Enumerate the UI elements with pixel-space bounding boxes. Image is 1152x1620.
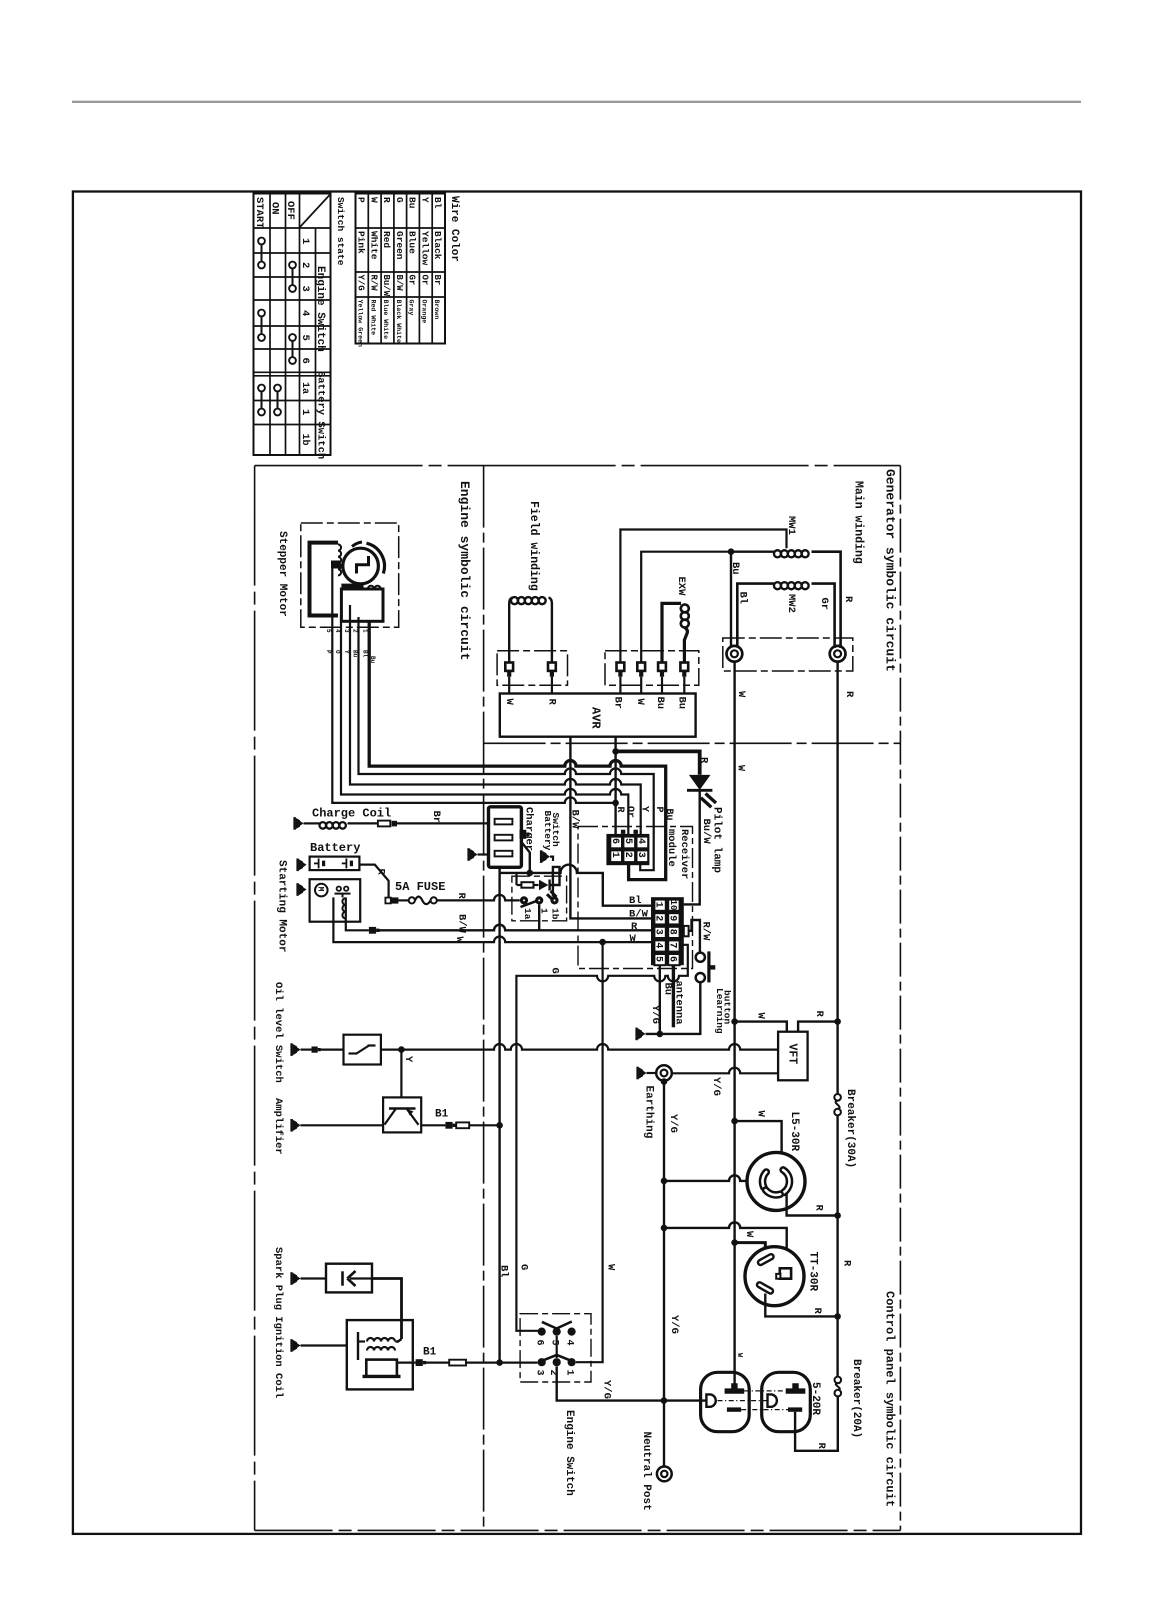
wire color row P <box>356 197 367 347</box>
svg-text:Red: Red <box>381 231 392 248</box>
svg-text:B/W: B/W <box>456 914 468 934</box>
label Learning button <box>714 988 733 1034</box>
AVR connector pins <box>617 663 689 677</box>
oil switch pin <box>312 1047 321 1053</box>
wire B/W from starting motor coil to 10-pin pin3 <box>346 922 369 931</box>
wire battery to fuse (R diagonal) <box>359 865 388 898</box>
label W (bus) <box>734 765 745 771</box>
ground (starting motor) <box>296 883 306 896</box>
svg-text:P: P <box>653 807 664 813</box>
label TT-30R <box>807 1252 819 1292</box>
svg-text:button: button <box>722 990 733 1025</box>
svg-text:Main winding: Main winding <box>852 481 865 564</box>
svg-text:Y/G: Y/G <box>649 1005 661 1024</box>
svg-text:Battery: Battery <box>310 841 360 855</box>
label Main winding <box>852 481 865 564</box>
starting motor bracket and coil <box>335 894 351 922</box>
contacts ON 1a-1 <box>274 385 281 416</box>
stepper stator coil bumps <box>338 544 341 575</box>
svg-text:VFT: VFT <box>786 1044 799 1065</box>
label Bl (MW2 lead) <box>737 592 749 605</box>
label R (TT) <box>811 1308 823 1315</box>
svg-text:Y: Y <box>419 197 430 203</box>
svg-text:Bu: Bu <box>676 697 688 710</box>
label B/W (AVR wire) <box>568 810 580 830</box>
pin number 6 (engine switch col) <box>299 358 311 364</box>
svg-text:Switch state: Switch state <box>335 197 346 266</box>
svg-text:Bu: Bu <box>407 197 418 209</box>
svg-text:Green: Green <box>394 231 405 260</box>
charger slots <box>495 819 513 857</box>
svg-text:Or: Or <box>624 806 635 818</box>
divider engine/generator (dash-dot) <box>483 466 485 1531</box>
wire stepper 2 (Or) to 6-pin cell 5 <box>341 616 628 835</box>
svg-text:9: 9 <box>667 915 678 921</box>
spark plug box <box>326 1264 372 1293</box>
region boundary bottom (dash-dot) <box>255 1529 901 1531</box>
svg-text:Yellow Green: Yellow Green <box>357 300 364 348</box>
battery switch blade 1a-1 <box>521 901 538 907</box>
pilot lamp LED <box>687 775 716 807</box>
svg-text:5: 5 <box>549 1340 560 1346</box>
wire spark plug to ignition coil <box>372 1279 402 1340</box>
pin numbers 10-pin <box>653 900 678 962</box>
svg-text:M: M <box>316 887 325 892</box>
stepper junction blob <box>331 561 341 569</box>
junction dot Y/G ground <box>657 1031 664 1038</box>
wire color row Bl <box>432 197 443 319</box>
label B/W (motor wire) <box>456 914 468 934</box>
wire Y/G to L5-30R <box>664 1175 763 1181</box>
svg-text:Bl: Bl <box>362 650 369 658</box>
ignition coil secondary block <box>363 1360 401 1377</box>
label MW2 <box>785 594 797 613</box>
switch state table grid <box>254 194 331 456</box>
battery switch dash box <box>512 876 567 921</box>
ground (earthing) <box>636 1067 646 1080</box>
label 5-20R <box>809 1382 821 1415</box>
junction dot Y/G bottom <box>661 1397 668 1404</box>
wire Y/G bus to neutral post <box>663 1401 665 1467</box>
label Neutral Post <box>640 1432 652 1511</box>
svg-text:G: G <box>549 968 561 974</box>
wire W bus to engine switch contact 1 <box>576 942 603 1362</box>
wire stepper 1 (R) joins AVR R wire <box>332 568 615 803</box>
MW1 coil <box>774 550 809 557</box>
MW2 coil <box>774 582 809 589</box>
label R (pin3) <box>631 921 638 933</box>
label OFF <box>284 201 296 220</box>
wire ground to ignition coil box <box>301 1344 347 1346</box>
svg-text:B/W: B/W <box>394 275 404 292</box>
junction dot amplifier-Bl bus <box>496 1122 503 1129</box>
label Earthing <box>643 1086 655 1139</box>
svg-text:1: 1 <box>564 1370 575 1376</box>
label L5-30R <box>788 1112 800 1152</box>
label Amplifier <box>272 1098 284 1155</box>
svg-text:Battery Switch: Battery Switch <box>315 371 327 459</box>
battery switch contacts 1a 1 1b <box>520 896 559 904</box>
svg-text:4: 4 <box>635 838 646 844</box>
svg-text:Y/G: Y/G <box>667 1114 679 1133</box>
svg-text:R: R <box>631 921 638 933</box>
label W (TT) <box>743 1231 755 1238</box>
charger right tab <box>520 830 530 839</box>
ground (battery switch) <box>540 850 550 863</box>
receptacle 5-20R right dome <box>762 1372 811 1431</box>
label Generator symbolic circuit <box>883 469 898 672</box>
svg-text:R: R <box>841 1260 853 1267</box>
wire AVR Br to MW1 top <box>620 530 786 662</box>
wire charger bottom stub <box>498 867 500 873</box>
wire R/W from pin8 to learning button <box>689 920 700 952</box>
svg-text:5: 5 <box>299 335 311 341</box>
label Breaker(20A) <box>850 1359 862 1438</box>
svg-text:Switch: Switch <box>550 813 561 848</box>
label Charge Coil <box>312 807 391 821</box>
switch table diagonal cell <box>300 194 331 228</box>
wire ignition coil output B1 <box>397 1361 416 1363</box>
contacts OFF 5-6 <box>289 334 296 364</box>
transistor symbol <box>385 1109 419 1125</box>
svg-text:L5-30R: L5-30R <box>788 1112 800 1152</box>
labels 1a 1 1b <box>522 908 561 920</box>
VFT box <box>778 1032 808 1081</box>
EXW coil and wires <box>662 603 689 661</box>
wire field winding left (W) <box>508 604 510 662</box>
svg-text:Or: Or <box>419 275 429 286</box>
svg-text:R: R <box>842 596 854 603</box>
region boundary top (dash-dot) <box>255 465 901 467</box>
wire color row Bu <box>407 197 418 315</box>
svg-text:Y/G: Y/G <box>601 1380 613 1399</box>
svg-text:White: White <box>368 231 379 260</box>
svg-text:G: G <box>518 1264 530 1270</box>
label Engine symbolic circuit <box>457 481 472 660</box>
learning button <box>696 951 716 982</box>
junction dot R-L5 <box>834 1212 841 1219</box>
wire Y/G to TT-30R <box>664 1222 787 1269</box>
svg-text:B1: B1 <box>423 1347 437 1359</box>
svg-text:Bu: Bu <box>663 809 674 821</box>
stepper pin number labels <box>325 629 369 633</box>
label R (6-pin wire) <box>614 807 625 813</box>
label Charger <box>523 807 535 851</box>
wire color row R <box>381 197 392 339</box>
stepper lower block <box>341 589 383 621</box>
charge coil <box>304 822 378 829</box>
svg-text:W: W <box>754 1111 766 1118</box>
svg-text:OFF: OFF <box>284 201 296 220</box>
junction dot L5 Y/G <box>661 1178 668 1185</box>
wire AVR W to node Bu <box>641 552 731 662</box>
wire MW2 right lead (Gr) <box>812 584 835 648</box>
svg-text:Bl: Bl <box>498 1265 510 1278</box>
label W (starting motor wire) <box>453 937 465 944</box>
wire charger ground <box>478 853 489 855</box>
label EXW <box>675 577 687 597</box>
label Control panel symbolic circuit <box>883 1291 897 1507</box>
svg-text:1a: 1a <box>299 382 310 394</box>
junction dot W-L5 <box>731 1118 738 1125</box>
junction dot R-TT <box>834 1313 841 1320</box>
svg-text:5: 5 <box>325 629 332 633</box>
svg-text:3: 3 <box>635 852 646 858</box>
svg-text:7: 7 <box>667 942 678 948</box>
stepper lower block connect bar <box>341 584 363 589</box>
svg-text:R: R <box>381 197 392 203</box>
svg-text:Breaker(30A): Breaker(30A) <box>844 1089 856 1168</box>
wire Y/G from pin5 down <box>659 965 661 1034</box>
ring terminal right <box>830 646 846 662</box>
label B1 (ignition) <box>423 1347 437 1359</box>
svg-text:3: 3 <box>299 286 311 292</box>
wire charger tab diagonal <box>521 842 529 873</box>
label Oil level Switch <box>272 982 284 1083</box>
junction dot W-TT <box>731 1239 738 1246</box>
svg-text:4: 4 <box>564 1340 575 1346</box>
wire Br to charger <box>397 822 489 824</box>
wire ground to amplifier box <box>301 1124 384 1126</box>
svg-text:1b: 1b <box>550 908 561 920</box>
connector pair (charge coil) <box>378 821 397 827</box>
svg-text:Charge Coil: Charge Coil <box>312 807 391 821</box>
svg-text:Field winding: Field winding <box>527 501 540 591</box>
starting motor M circle <box>315 884 328 897</box>
wire battery switch contact 1 down to pin3 wire <box>538 905 540 931</box>
svg-text:R: R <box>375 869 387 876</box>
label Stepper Motor <box>276 531 288 617</box>
svg-text:6: 6 <box>667 956 678 962</box>
wire stepper 3 (Y) to 6-pin cell 4 <box>350 605 641 835</box>
svg-text:10: 10 <box>668 900 678 911</box>
wire Y/G bus down <box>663 1081 665 1401</box>
wires AVR pins to AVR box <box>509 677 684 694</box>
label R (VFT) <box>813 1011 825 1018</box>
svg-text:Black: Black <box>432 231 443 260</box>
stepper rotation arc <box>367 543 385 573</box>
wire MW2 left lead (Bl) to ring terminal <box>737 584 774 648</box>
svg-text:5: 5 <box>653 956 664 962</box>
label Y/G (engine switch) <box>601 1380 613 1399</box>
wire stepper 5 (Bu, thick) to 6-pin cell 2 <box>369 621 666 879</box>
wire Bl from charger to 10-pin pin1 <box>500 865 651 906</box>
label START <box>253 197 265 229</box>
spark gap symbol <box>343 1271 373 1286</box>
stepper motor dash box <box>301 523 399 627</box>
svg-text:B/W: B/W <box>629 909 649 921</box>
contacts START 1-2 <box>258 238 265 269</box>
wire ground to oil switch box <box>301 1048 344 1050</box>
svg-text:3: 3 <box>534 1370 545 1376</box>
svg-text:Stepper Motor: Stepper Motor <box>276 531 288 617</box>
svg-text:Pink: Pink <box>356 231 367 254</box>
wire stepper 4 (P) to 6-pin cell 3 <box>359 617 654 870</box>
ring terminal neutral post <box>657 1467 672 1482</box>
oil switch symbol <box>349 1046 376 1054</box>
svg-text:W: W <box>754 1013 766 1020</box>
svg-text:Engine symbolic circuit: Engine symbolic circuit <box>457 481 472 660</box>
svg-text:Gray: Gray <box>408 300 415 316</box>
label R (5-20R) <box>815 1443 827 1450</box>
svg-text:Earthing: Earthing <box>643 1086 655 1139</box>
ground (amplifier) <box>290 1119 300 1132</box>
label Receiver module <box>665 829 690 879</box>
svg-text:W: W <box>453 937 465 944</box>
svg-text:Y/G: Y/G <box>710 1077 722 1096</box>
label Bu/W <box>700 819 712 845</box>
amplifier box <box>383 1097 421 1132</box>
pin number 1 (engine switch col) <box>299 238 311 244</box>
ground (battery) <box>296 859 306 872</box>
svg-text:Black White: Black White <box>395 300 402 344</box>
svg-text:R/W: R/W <box>699 922 711 942</box>
svg-text:P: P <box>356 197 367 203</box>
svg-text:Blue White: Blue White <box>382 300 389 340</box>
svg-text:B1: B1 <box>435 1109 449 1121</box>
label Y/G (pin5) <box>649 1005 661 1024</box>
svg-text:ON: ON <box>269 202 281 215</box>
svg-text:Bl: Bl <box>629 895 642 907</box>
wire W from starting motor to 10-pin pin4 <box>333 897 651 942</box>
label Br <box>430 811 442 824</box>
label B1 (amplifier) <box>435 1109 449 1121</box>
wire MW1 right lead (R) <box>812 552 841 648</box>
svg-text:5A FUSE: 5A FUSE <box>395 880 445 894</box>
wire learning button to ground <box>646 982 701 1034</box>
label Or (6-pin wire) <box>624 806 635 818</box>
label R (battery) <box>375 869 387 876</box>
svg-text:1b: 1b <box>299 434 311 446</box>
svg-text:EXW: EXW <box>675 577 687 597</box>
label Engine Switch (group) <box>314 266 326 352</box>
svg-text:1: 1 <box>653 902 664 908</box>
svg-text:TT-30R: TT-30R <box>807 1252 819 1292</box>
svg-text:Red White: Red White <box>369 300 376 336</box>
junction dot below ring <box>661 1078 668 1085</box>
svg-text:AVR: AVR <box>589 707 603 729</box>
region boundary left (dash-dot) <box>254 466 256 1531</box>
label VFT <box>786 1044 799 1065</box>
ground (spark plug) <box>290 1272 300 1285</box>
label Y/G (bus upper) <box>667 1114 679 1133</box>
svg-text:4: 4 <box>299 310 311 316</box>
label Bu (node) <box>729 562 741 575</box>
LED indicator <box>539 880 557 901</box>
wire color row Y <box>419 197 430 323</box>
svg-text:2: 2 <box>653 915 664 921</box>
ground (charge coil) <box>293 817 303 830</box>
svg-text:4: 4 <box>653 942 664 948</box>
svg-text:Gr: Gr <box>818 598 830 611</box>
AVR box <box>500 694 696 737</box>
label Battery <box>310 841 360 855</box>
svg-text:module: module <box>665 829 677 867</box>
wire R from AVR down to 6-pin cell 6 <box>614 737 616 835</box>
label Starting Motor <box>276 860 288 952</box>
label W (pin4) <box>630 933 637 945</box>
svg-text:W: W <box>743 1231 755 1238</box>
label antenna <box>672 981 684 1026</box>
wire Y to amplifier <box>400 1050 402 1098</box>
divider control panel (dash-dot) <box>899 466 901 1531</box>
svg-text:Bu: Bu <box>661 983 673 996</box>
wire R from L5-30R to bus <box>787 1194 838 1216</box>
svg-text:6: 6 <box>534 1340 545 1346</box>
svg-text:R: R <box>843 691 855 698</box>
main winding terminal dash box <box>723 638 853 671</box>
wire R bus lower (breaker to breaker 20A) <box>836 1115 838 1376</box>
svg-text:Br: Br <box>432 275 442 286</box>
svg-text:Brown: Brown <box>433 300 440 320</box>
svg-text:1: 1 <box>362 629 369 633</box>
ignition coil windings <box>358 1332 402 1360</box>
contacts START 1a-1 <box>258 385 265 416</box>
pin number 3 (engine switch col) <box>299 286 311 292</box>
label Y <box>402 1056 414 1063</box>
svg-text:R: R <box>813 1011 825 1018</box>
label R (bus) <box>841 1260 853 1267</box>
svg-text:5: 5 <box>622 838 633 844</box>
label G (bus) <box>518 1264 530 1270</box>
svg-text:P: P <box>325 650 332 654</box>
breaker 30A <box>834 1094 841 1115</box>
receptacle L5-30R <box>747 1152 805 1210</box>
node Bu junction dot <box>728 548 735 555</box>
svg-text:R: R <box>546 699 558 706</box>
svg-text:Wire Color: Wire Color <box>448 196 460 262</box>
svg-text:Neutral Post: Neutral Post <box>640 1432 652 1511</box>
label Battery Switch <box>542 811 561 851</box>
junction dot R at AVR <box>612 748 619 755</box>
label Switch state <box>335 197 346 266</box>
stepper lower block coil bumps <box>346 586 381 589</box>
label Spark Plug Ignition Coil <box>272 1247 284 1398</box>
svg-text:W: W <box>634 699 646 706</box>
resistor (indicator) <box>517 874 539 888</box>
wire Y from oil switch to VFT <box>381 1044 778 1050</box>
receptacle 5-20R left dome <box>701 1372 750 1431</box>
svg-text:W: W <box>734 765 745 771</box>
antenna wire from pin6 <box>672 965 675 1028</box>
svg-text:Br: Br <box>430 811 442 824</box>
wire LED to contact 1b <box>550 867 560 897</box>
field connector pins <box>505 663 556 677</box>
wire R branch to pilot lamp (thick) <box>616 751 700 774</box>
label 5A FUSE <box>395 880 445 894</box>
label Y/G (bus lower) <box>668 1315 680 1334</box>
engine switch contacts bottom row 3 2 1 <box>538 1358 576 1366</box>
starting motor terminals <box>337 887 349 891</box>
wire pilot lamp to 10-pin pin10 (Bu/W) <box>684 790 700 904</box>
wire Bl bus (charger to ignition coil wire) <box>498 873 500 1363</box>
breaker 20A <box>835 1377 842 1397</box>
svg-text:Amplifier: Amplifier <box>272 1098 284 1155</box>
engine switch blades top <box>542 1322 572 1329</box>
label R (L5) <box>813 1205 825 1212</box>
svg-text:6: 6 <box>299 358 311 364</box>
fuse <box>385 897 436 905</box>
label Engine Switch <box>563 1410 575 1496</box>
svg-text:Y/G: Y/G <box>668 1315 680 1334</box>
pin number 2 (engine switch col) <box>299 262 311 268</box>
label Breaker(30A) <box>844 1089 856 1168</box>
junction dot Y <box>398 1046 405 1053</box>
label W (left terminal wire) <box>735 691 747 698</box>
stepper wire color labels <box>325 650 376 664</box>
header rule <box>72 101 1081 103</box>
label Bu (6-pin wire) <box>663 809 674 821</box>
